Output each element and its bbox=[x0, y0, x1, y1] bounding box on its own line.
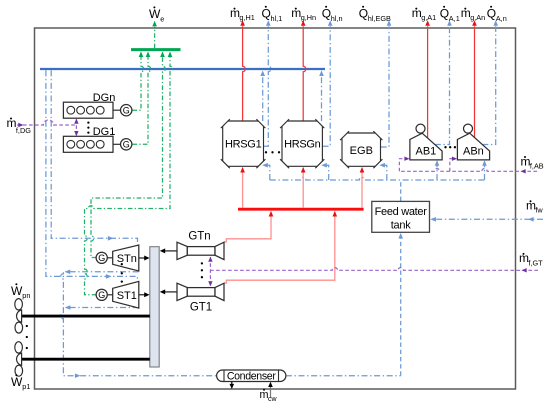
svg-text:p1: p1 bbox=[22, 382, 30, 391]
svg-text:fw: fw bbox=[535, 206, 543, 215]
svg-text:f,AB: f,AB bbox=[530, 162, 544, 171]
svg-text:Q: Q bbox=[359, 7, 368, 21]
svg-text:Q: Q bbox=[440, 7, 449, 21]
svg-text:STn: STn bbox=[117, 253, 137, 265]
svg-text:G: G bbox=[123, 105, 130, 115]
svg-text:AB1: AB1 bbox=[416, 146, 437, 158]
svg-text:DG1: DG1 bbox=[93, 126, 116, 138]
svg-text:ABn: ABn bbox=[463, 146, 484, 158]
svg-text:HRSG1: HRSG1 bbox=[225, 139, 262, 151]
svg-text:hl,EGB: hl,EGB bbox=[368, 14, 391, 23]
svg-text:tank: tank bbox=[391, 219, 411, 231]
svg-text:A,1: A,1 bbox=[449, 14, 460, 23]
svg-text:g,Hn: g,Hn bbox=[301, 13, 316, 22]
svg-text:e: e bbox=[160, 14, 164, 23]
svg-text:HRSGn: HRSGn bbox=[284, 139, 321, 151]
svg-text:Condenser: Condenser bbox=[227, 371, 276, 383]
svg-text:g,An: g,An bbox=[470, 13, 485, 22]
svg-text:hl,n: hl,n bbox=[331, 14, 343, 23]
svg-text:g,H1: g,H1 bbox=[239, 13, 254, 22]
svg-text:EGB: EGB bbox=[350, 145, 373, 157]
svg-text:Feed water: Feed water bbox=[375, 206, 428, 218]
svg-text:G: G bbox=[98, 290, 105, 300]
svg-text:DGn: DGn bbox=[93, 92, 116, 104]
svg-text:A,n: A,n bbox=[496, 14, 507, 23]
svg-text:W: W bbox=[11, 375, 23, 389]
svg-text:Q: Q bbox=[322, 7, 331, 21]
svg-text:cw: cw bbox=[268, 396, 278, 403]
svg-text:ST1: ST1 bbox=[117, 290, 137, 302]
svg-text:GTn: GTn bbox=[188, 231, 210, 243]
svg-text:pn: pn bbox=[22, 291, 30, 300]
svg-text:W: W bbox=[11, 284, 23, 298]
svg-text:f,GT: f,GT bbox=[528, 258, 543, 267]
svg-text:GT1: GT1 bbox=[190, 302, 212, 314]
svg-text:g,A1: g,A1 bbox=[421, 13, 436, 22]
svg-text:G: G bbox=[123, 140, 130, 150]
svg-text:f,DG: f,DG bbox=[16, 126, 31, 135]
svg-text:W: W bbox=[149, 7, 161, 21]
svg-text:G: G bbox=[98, 253, 105, 263]
svg-text:Q: Q bbox=[262, 7, 271, 21]
svg-text:hl,1: hl,1 bbox=[271, 14, 283, 23]
svg-text:Q: Q bbox=[487, 7, 496, 21]
